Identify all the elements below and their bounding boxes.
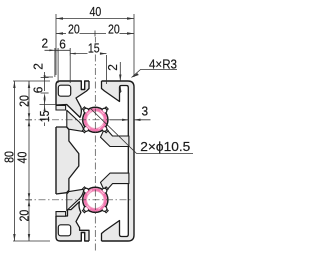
dim 3 right xyxy=(110,119,129,121)
ribs core1 xyxy=(82,107,108,213)
extension line block bottom edge for dim 15 xyxy=(40,104,57,106)
20/40/20 dim ends xyxy=(28,81,30,88)
svg-text:6: 6 xyxy=(59,37,66,52)
extension line right edge (x=134) up to width dims xyxy=(133,14,135,77)
dim 40 line xyxy=(56,18,134,20)
extension stub for left dim 2 xyxy=(44,76,53,78)
dim text 20 (left bottom) xyxy=(17,210,32,222)
centerlines xyxy=(25,37,133,251)
extension line top face (y=81) out to height dims xyxy=(13,80,50,82)
svg-text:4×R3: 4×R3 xyxy=(149,57,177,72)
svg-text:20: 20 xyxy=(17,210,32,222)
core hole 2 (phi 10.5) xyxy=(83,187,108,212)
core hole 1 (phi 10.5) xyxy=(83,107,108,132)
leader 4xR3 xyxy=(132,70,178,78)
80 dim xyxy=(13,81,15,88)
left col3 arrows xyxy=(44,75,46,81)
ribs core2 xyxy=(82,187,108,213)
left slot fin 2 xyxy=(56,212,66,217)
dim text 20 (left top) xyxy=(17,95,32,107)
dim 20/20 line xyxy=(56,33,66,35)
extension line bottom face (y=241) out to height dims xyxy=(13,240,50,242)
dim text 6 (left small) xyxy=(31,87,46,94)
web upper (core1 to right wall) xyxy=(101,128,129,147)
outer profile outline stroke (open at slot mouths) xyxy=(56,81,134,241)
dim text 40 (left middle) xyxy=(15,152,30,164)
dim 80 line xyxy=(13,81,15,241)
wedge between slot2 and core2 cavity xyxy=(67,189,84,210)
row3 arrows xyxy=(49,49,55,51)
square hole top-left block xyxy=(58,85,70,96)
interior cavity blob fill (white) xyxy=(56,81,128,241)
dim text 2 (left small) xyxy=(31,63,46,70)
svg-text:2: 2 xyxy=(105,64,120,71)
arrowheads xyxy=(13,17,140,241)
web lower (core2 to right wall) xyxy=(101,173,129,192)
svg-text:20: 20 xyxy=(17,95,32,107)
4xR3 leader arrow xyxy=(132,73,139,77)
arrows + dim lines xyxy=(13,14,193,241)
2 top-right arrows xyxy=(119,75,121,82)
leader 2 x phi10.5 xyxy=(91,109,193,153)
cavity outline stroke (open at slot mouths) xyxy=(56,81,128,241)
svg-text:20: 20 xyxy=(108,22,120,37)
left col3 line xyxy=(44,72,46,91)
svg-text:40: 40 xyxy=(15,152,30,164)
dim 2 top right xyxy=(119,62,121,81)
profile silhouette fill (gray aluminum section) xyxy=(56,81,134,241)
svg-text:40: 40 xyxy=(90,4,102,19)
dim text 80 (left height) xyxy=(1,151,16,163)
20/20 dim xyxy=(56,32,63,34)
40 dim xyxy=(56,17,63,19)
svg-text:15: 15 xyxy=(88,41,100,56)
svg-text:2: 2 xyxy=(31,63,46,70)
tick left dim chain y=93 xyxy=(41,92,49,94)
extension line left edge (x=56) up to width dims xyxy=(55,14,57,75)
svg-text:6: 6 xyxy=(31,87,46,94)
svg-text:15: 15 xyxy=(37,111,52,123)
dim text 2 (right wall top) xyxy=(105,64,120,71)
tick left dim chain y=77.5 xyxy=(41,77,49,79)
extension line hole edge for dim 2/6 xyxy=(57,48,59,83)
extension line hole right edge for dim 6/15 xyxy=(69,48,71,83)
svg-text:2×ϕ10.5: 2×ϕ10.5 xyxy=(140,139,190,154)
dim text 15 (left small) xyxy=(37,111,52,123)
extension line slot lip for dim 15 xyxy=(105,55,107,84)
svg-text:3: 3 xyxy=(142,104,149,119)
svg-text:20: 20 xyxy=(68,22,80,37)
extension line face for dim 2 xyxy=(54,48,56,77)
dim 20/40/20 line xyxy=(28,81,30,241)
left slot fin 1 xyxy=(56,105,66,110)
wedge between slot1 and core1 cavity xyxy=(67,110,84,131)
row3 lines xyxy=(45,49,71,51)
dimension texts xyxy=(1,4,190,222)
3 dim arrows xyxy=(122,119,129,121)
svg-text:2: 2 xyxy=(42,36,49,51)
square hole bottom-left block xyxy=(58,225,70,236)
